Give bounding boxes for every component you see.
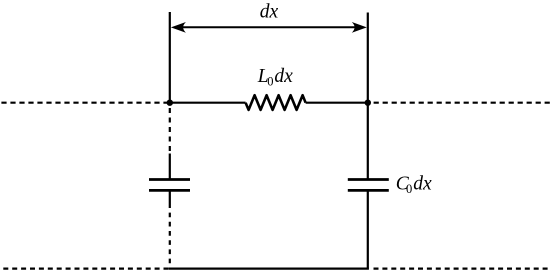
svg-text:0: 0 [267, 74, 273, 88]
svg-text:0: 0 [406, 182, 412, 196]
svg-text:dx: dx [413, 174, 432, 195]
svg-text:dx: dx [260, 2, 279, 23]
svg-text:dx: dx [274, 66, 293, 87]
